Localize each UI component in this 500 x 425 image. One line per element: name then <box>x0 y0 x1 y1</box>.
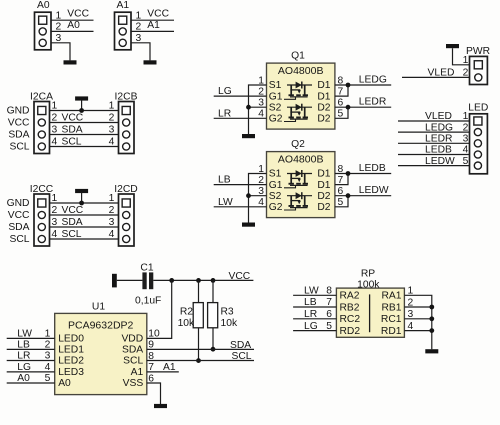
svg-text:SCL: SCL <box>123 356 143 367</box>
svg-text:A0: A0 <box>58 378 71 389</box>
svg-text:S2: S2 <box>269 191 282 202</box>
svg-text:3: 3 <box>52 125 58 136</box>
capacitor C1 0,1uF <box>135 262 161 306</box>
svg-text:2: 2 <box>45 340 51 351</box>
svg-text:RC2: RC2 <box>340 314 361 325</box>
svg-text:SCL: SCL <box>62 137 82 148</box>
svg-text:VCC: VCC <box>229 271 251 282</box>
svg-text:PWR: PWR <box>466 46 490 57</box>
junction <box>429 305 434 310</box>
svg-text:SCL: SCL <box>9 234 29 245</box>
svg-text:LED: LED <box>468 103 488 114</box>
svg-text:1: 1 <box>52 193 58 204</box>
junction <box>429 316 434 321</box>
svg-text:D1: D1 <box>317 180 330 191</box>
svg-text:Q1: Q1 <box>291 51 305 62</box>
svg-text:4: 4 <box>45 362 51 373</box>
pin numbers left <box>258 75 264 119</box>
svg-text:LW: LW <box>218 197 233 208</box>
wire pin5 join <box>335 107 348 118</box>
pin numbers left <box>258 164 264 208</box>
wire net LG (pin 5) <box>293 321 336 332</box>
wire pin3 to ground <box>51 43 70 61</box>
svg-text:1: 1 <box>45 329 51 340</box>
svg-text:PCA9632DP2: PCA9632DP2 <box>68 319 134 331</box>
wire VCC row <box>50 113 119 124</box>
svg-text:1: 1 <box>109 101 115 112</box>
pin numbers right <box>338 164 344 208</box>
svg-text:3: 3 <box>45 351 51 362</box>
connector A1 <box>115 0 132 50</box>
wire A1 <box>131 20 174 32</box>
svg-text:3: 3 <box>109 217 115 228</box>
svg-text:LB: LB <box>17 340 30 351</box>
wire R2 top <box>198 280 200 302</box>
wire C1 left <box>117 279 143 281</box>
svg-text:LEDB: LEDB <box>359 163 386 174</box>
node SDA <box>8 222 29 233</box>
svg-text:4: 4 <box>52 229 58 240</box>
svg-text:LG: LG <box>218 86 232 97</box>
svg-text:8: 8 <box>326 286 332 297</box>
power bar to GND row <box>75 96 88 110</box>
svg-text:U1: U1 <box>92 302 105 313</box>
wire VDD to VCC rail <box>147 280 172 338</box>
svg-text:Q2: Q2 <box>291 139 305 150</box>
svg-text:SCL: SCL <box>232 351 252 362</box>
wire SCL row <box>50 137 119 148</box>
svg-text:LEDR: LEDR <box>425 134 452 145</box>
svg-text:0,1uF: 0,1uF <box>135 295 161 306</box>
svg-text:RA1: RA1 <box>381 291 401 302</box>
wire R3 bottom to SDA <box>212 328 214 349</box>
svg-text:RD1: RD1 <box>381 326 402 337</box>
connector A0 <box>35 0 52 50</box>
svg-text:AO4800B: AO4800B <box>278 154 324 166</box>
svg-text:LEDW: LEDW <box>359 185 389 196</box>
svg-text:LED0: LED0 <box>58 334 84 345</box>
svg-text:D1: D1 <box>317 169 330 180</box>
svg-text:G2: G2 <box>269 114 283 125</box>
wire net LR to G2 <box>214 108 267 119</box>
svg-text:1: 1 <box>109 193 115 204</box>
junction <box>429 328 434 333</box>
svg-text:3: 3 <box>52 217 58 228</box>
ground <box>242 223 255 227</box>
wire VSS to ground <box>147 383 161 404</box>
resistor network RP 100k <box>336 268 404 337</box>
wire net LW (pin 1) <box>7 329 55 340</box>
junction <box>346 171 351 176</box>
svg-text:3: 3 <box>463 134 469 145</box>
svg-text:D2: D2 <box>317 191 330 202</box>
svg-text:3: 3 <box>109 125 115 136</box>
svg-text:VCC: VCC <box>8 210 30 221</box>
svg-text:LED2: LED2 <box>58 356 84 367</box>
svg-text:VSS: VSS <box>123 378 144 389</box>
node SCL <box>9 141 29 152</box>
svg-text:RC1: RC1 <box>381 314 402 325</box>
svg-text:4: 4 <box>52 137 58 148</box>
wire VCC row <box>50 205 119 216</box>
junction <box>79 108 84 113</box>
wire pin3 <box>404 318 431 320</box>
wire net LEDB (D1) <box>335 163 391 174</box>
svg-text:VCC: VCC <box>62 113 84 124</box>
svg-text:1: 1 <box>463 111 469 122</box>
wire net LEDR <box>398 134 470 145</box>
connector I2CC <box>30 184 54 246</box>
svg-text:4: 4 <box>463 145 469 156</box>
wire GND row <box>50 193 119 204</box>
ground bar (C1 left) <box>112 274 117 288</box>
svg-text:A1: A1 <box>163 362 176 373</box>
junction R2-SCL <box>196 358 201 363</box>
ground <box>154 404 167 408</box>
svg-text:C1: C1 <box>140 262 153 273</box>
junction <box>79 201 84 206</box>
svg-text:VCC: VCC <box>62 205 84 216</box>
pin 3 <box>136 33 142 44</box>
pin 1 <box>56 10 62 21</box>
wire net LEDR (D2) <box>335 97 391 108</box>
pin 2 <box>136 22 142 33</box>
svg-text:VCC: VCC <box>8 117 30 128</box>
svg-text:LEDW: LEDW <box>425 156 455 167</box>
connector I2CD <box>114 184 137 246</box>
svg-text:2: 2 <box>463 68 469 79</box>
resistor R2 10k <box>178 303 204 330</box>
wire net LEDG <box>398 122 470 133</box>
connector I2CB <box>115 91 138 153</box>
svg-text:VLED: VLED <box>425 111 452 122</box>
svg-text:AO4800B: AO4800B <box>278 65 324 77</box>
svg-text:2: 2 <box>109 113 115 124</box>
node SDA <box>8 129 29 140</box>
svg-text:A0: A0 <box>37 0 50 11</box>
svg-text:2: 2 <box>463 122 469 133</box>
svg-text:LW: LW <box>304 286 319 297</box>
svg-text:GND: GND <box>7 105 30 116</box>
svg-text:SDA: SDA <box>8 222 29 233</box>
node VCC <box>8 210 30 221</box>
svg-text:RB2: RB2 <box>340 302 360 313</box>
svg-text:S1: S1 <box>269 169 282 180</box>
wire net LW to G2 <box>214 197 267 208</box>
wire A1 <box>147 362 179 373</box>
svg-text:SCL: SCL <box>62 229 82 240</box>
wire S2 <box>249 106 267 108</box>
svg-text:D2: D2 <box>317 114 330 125</box>
svg-text:LEDG: LEDG <box>425 122 453 133</box>
svg-text:2: 2 <box>52 205 58 216</box>
wire SDA row <box>50 125 119 136</box>
wire VCC <box>51 9 94 21</box>
svg-text:A1: A1 <box>131 367 144 378</box>
svg-text:LG: LG <box>17 362 31 373</box>
wire S1 to source rail <box>249 174 267 223</box>
svg-text:5: 5 <box>326 321 332 332</box>
wire pin5 join <box>335 196 348 207</box>
wire net LEDB <box>398 145 470 156</box>
wire net LR (pin 6) <box>293 309 336 320</box>
connector I2CA <box>30 91 53 153</box>
wire SDA <box>147 340 254 351</box>
wire net LG to G1 <box>214 86 267 97</box>
svg-text:LEDB: LEDB <box>425 145 452 156</box>
wire net LW (pin 8) <box>293 286 336 297</box>
svg-text:VDD: VDD <box>121 334 143 345</box>
svg-text:SDA: SDA <box>230 340 251 351</box>
pin 1 <box>136 10 142 21</box>
pin 2 <box>56 22 62 33</box>
svg-text:LW: LW <box>17 329 32 340</box>
junction <box>346 193 351 198</box>
wire net LEDW <box>398 156 470 167</box>
wire net LB (pin 2) <box>7 340 55 351</box>
junction R3 <box>211 278 216 283</box>
junction VDD <box>169 278 174 283</box>
svg-text:A1: A1 <box>116 0 129 11</box>
wire net LB (pin 7) <box>293 297 336 308</box>
svg-text:1: 1 <box>463 55 469 66</box>
svg-text:R3: R3 <box>221 307 234 318</box>
svg-text:A1: A1 <box>147 20 160 31</box>
svg-text:D1: D1 <box>317 91 330 102</box>
svg-text:LR: LR <box>17 351 30 362</box>
junction <box>246 105 251 110</box>
wire S2 <box>249 195 267 197</box>
wire net LEDG (D1) <box>335 74 391 85</box>
resistor R3 10k <box>208 303 238 330</box>
svg-text:RB1: RB1 <box>381 302 401 313</box>
node GND <box>7 198 30 209</box>
svg-text:SDA: SDA <box>62 125 83 136</box>
svg-text:RA2: RA2 <box>340 291 360 302</box>
wire S1 to source rail <box>249 85 267 134</box>
svg-text:LED1: LED1 <box>58 345 84 356</box>
svg-text:2: 2 <box>109 205 115 216</box>
junction <box>246 193 251 198</box>
wire pin2 <box>404 306 431 308</box>
svg-text:10k: 10k <box>221 318 238 329</box>
svg-text:LEDR: LEDR <box>359 97 386 108</box>
pin numbers right <box>408 286 414 332</box>
node VCC <box>8 117 30 128</box>
wire VLED <box>402 68 470 79</box>
svg-text:R2: R2 <box>180 307 193 318</box>
pin numbers right <box>338 75 344 119</box>
ground <box>242 134 255 138</box>
ground <box>64 60 77 64</box>
svg-text:LB: LB <box>304 297 317 308</box>
svg-text:S1: S1 <box>269 80 282 91</box>
junction <box>346 83 351 88</box>
wire GND row <box>50 101 119 112</box>
connector PWR <box>466 46 490 85</box>
svg-text:GND: GND <box>7 198 30 209</box>
wire pin7 join <box>335 85 348 96</box>
transistor Q1 AO4800B <box>267 51 335 130</box>
junction R3-SDA <box>211 347 216 352</box>
node SCL <box>9 234 29 245</box>
op-amp U1 PCA9632DP2 <box>55 302 147 395</box>
svg-text:D2: D2 <box>317 102 330 113</box>
wire net LR (pin 3) <box>7 351 55 362</box>
junction R2 <box>196 278 201 283</box>
pin numbers right <box>148 329 160 385</box>
svg-text:10k: 10k <box>178 318 195 329</box>
svg-text:D2: D2 <box>317 202 330 213</box>
svg-text:LED3: LED3 <box>58 367 84 378</box>
wire net LG (pin 4) <box>7 362 55 373</box>
svg-text:SDA: SDA <box>62 217 83 228</box>
svg-text:7: 7 <box>326 297 332 308</box>
svg-text:2: 2 <box>52 113 58 124</box>
svg-text:SCL: SCL <box>9 141 29 152</box>
svg-text:4: 4 <box>109 229 115 240</box>
svg-text:G2: G2 <box>269 202 283 213</box>
svg-text:5: 5 <box>463 156 469 167</box>
svg-text:SDA: SDA <box>8 129 29 140</box>
svg-text:SDA: SDA <box>122 345 143 356</box>
svg-text:LG: LG <box>304 321 318 332</box>
wire R3 top <box>212 280 214 302</box>
svg-text:1: 1 <box>52 101 58 112</box>
wire R2 bottom to SCL <box>198 328 200 361</box>
svg-text:5: 5 <box>45 373 51 384</box>
svg-text:4: 4 <box>109 137 115 148</box>
wire pin1 <box>453 48 470 66</box>
svg-text:6: 6 <box>326 309 332 320</box>
wire net VLED <box>398 111 470 122</box>
svg-text:VLED: VLED <box>428 68 455 79</box>
wire A0 <box>51 20 94 32</box>
svg-text:LR: LR <box>218 108 231 119</box>
svg-text:LR: LR <box>304 309 317 320</box>
svg-text:G1: G1 <box>269 91 283 102</box>
ground <box>144 60 157 64</box>
wire pin7 join <box>335 174 348 185</box>
svg-text:G1: G1 <box>269 180 283 191</box>
svg-text:LEDG: LEDG <box>359 74 387 85</box>
wire net LB to G1 <box>214 175 267 186</box>
wire net A0 (pin 5) <box>7 373 55 384</box>
pin 3 <box>56 33 62 44</box>
wire net LEDW (D2) <box>335 185 391 196</box>
wire pin1 to ground rail <box>404 295 431 349</box>
svg-text:S2: S2 <box>269 102 282 113</box>
transistor Q2 AO4800B <box>267 139 335 218</box>
wire pin4 <box>404 330 431 332</box>
wire VCC rail <box>153 271 253 282</box>
node GND <box>7 105 30 116</box>
power bar to GND row <box>75 189 88 203</box>
connector LED <box>468 103 488 174</box>
svg-text:VCC: VCC <box>67 9 89 20</box>
wire pin3 to ground <box>131 43 150 61</box>
power bar <box>446 44 459 48</box>
svg-text:VCC: VCC <box>147 9 169 20</box>
svg-text:RP: RP <box>361 268 375 279</box>
svg-text:LB: LB <box>218 175 231 186</box>
svg-text:RD2: RD2 <box>340 326 361 337</box>
wire SCL row <box>50 229 119 240</box>
wire SCL <box>147 351 254 362</box>
svg-text:A0: A0 <box>67 20 80 31</box>
ground <box>425 349 438 353</box>
junction <box>346 105 351 110</box>
wire SDA row <box>50 217 119 228</box>
svg-text:A0: A0 <box>17 373 30 384</box>
svg-text:D1: D1 <box>317 80 330 91</box>
wire VCC <box>131 9 174 21</box>
